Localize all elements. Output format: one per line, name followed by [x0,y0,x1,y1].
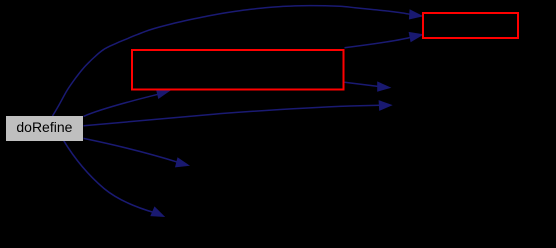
svg-text:doRefine: doRefine [16,119,72,135]
